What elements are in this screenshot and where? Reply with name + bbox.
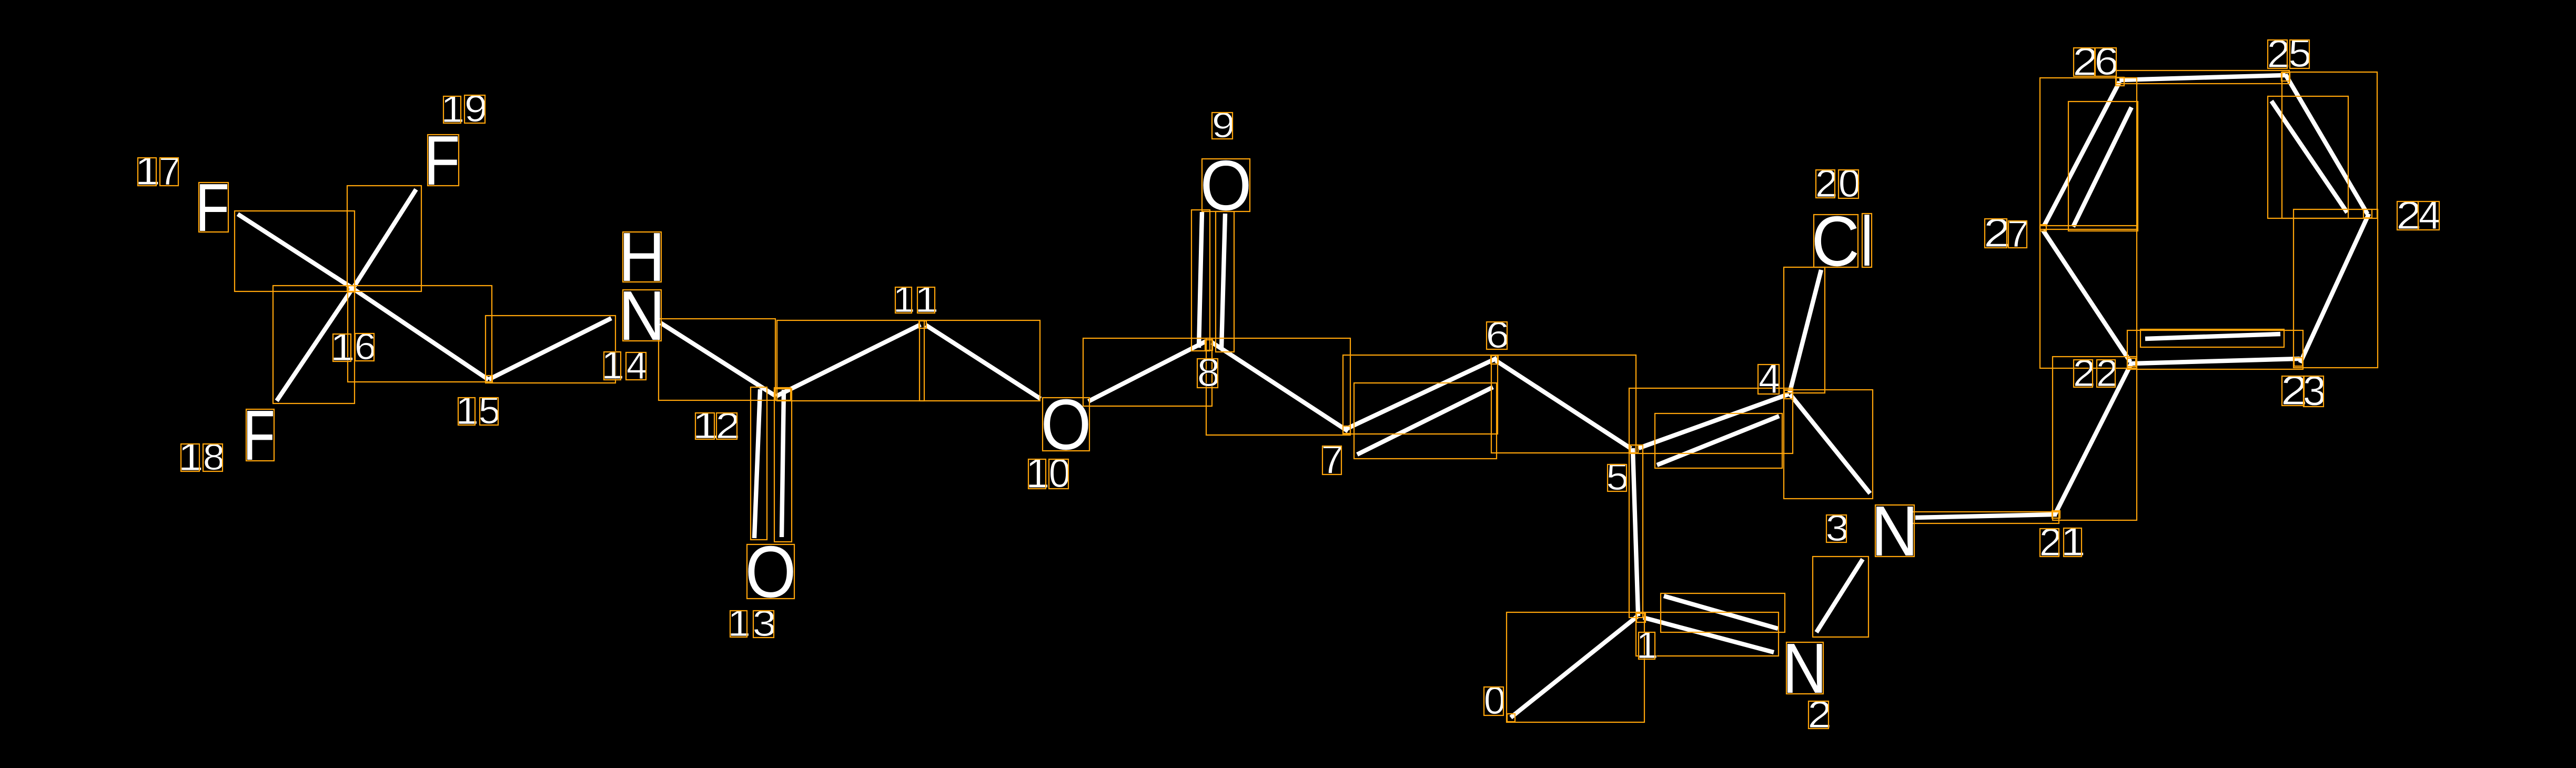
bond 4-Cl20 box [1784, 267, 1825, 393]
bond 27=26 main line [2044, 82, 2119, 226]
label 10 digit 0 [1049, 451, 1071, 496]
bond 1=2 inner box [1661, 593, 1785, 632]
bond 8-7 line [1212, 342, 1348, 431]
label 22 digit 2a [2073, 351, 2096, 394]
atom N3 [1871, 491, 1918, 571]
label 17 digit 7 [159, 149, 181, 193]
bond 23=22 main line [2131, 359, 2300, 363]
bond 11-10 box [920, 320, 1040, 401]
label 24 digit 4 [2418, 193, 2441, 238]
bond 3-21 line [1915, 514, 2057, 518]
bond 11-10 line [926, 325, 1040, 399]
bond 16-15 box [348, 286, 492, 382]
bond 5-1 line [1633, 448, 1638, 616]
bond 12=13 line b [782, 390, 784, 537]
bond 16-17 line [238, 214, 353, 289]
label 22 digit 2b [2096, 351, 2118, 394]
atom N14 [619, 277, 665, 355]
label 16 digit 6 [355, 326, 377, 368]
label 18 digit 1 [178, 435, 204, 479]
bond 23=22 main box [2127, 330, 2303, 369]
bond 7=6 main box [1343, 355, 1498, 434]
atom O10 [1041, 384, 1092, 464]
atom F19 [424, 122, 460, 200]
bond 15-14 box [486, 316, 615, 383]
label 1 [1636, 623, 1659, 666]
bond 4-Cl20 line [1790, 270, 1821, 392]
bond 22-27 box [2040, 226, 2137, 368]
bond 8=9 box b [1216, 211, 1234, 352]
label 11 digit 1a [893, 279, 915, 320]
label 27 digit 2 [1984, 210, 2011, 256]
label 12 digit 2 [715, 406, 740, 446]
atom C8 vertex box [1205, 340, 1213, 350]
atom C11 vertex box [919, 321, 926, 328]
label 26 digit 6 [2094, 39, 2119, 83]
bond 12-11 line [776, 325, 921, 396]
bond 16-18 line [277, 288, 353, 401]
atom C1 vertex box [1636, 613, 1645, 622]
bond 1-0 box [1507, 612, 1644, 722]
label 10 digit 1 [1026, 450, 1050, 497]
bond 25=24 main line [2286, 74, 2368, 214]
label 18 digit 8 [203, 437, 225, 478]
bond 27=26 inner line [2073, 107, 2131, 227]
bond 16-15 line [353, 288, 489, 379]
label 2 [1807, 694, 1832, 736]
bond 5=4 inner box [1655, 413, 1782, 468]
label 14 digit 4 [626, 343, 648, 387]
bond 27=26 inner box [2068, 102, 2138, 231]
bond 7=6 inner box [1354, 383, 1497, 459]
svg-text:0: 0 [1049, 451, 1071, 496]
bond 3-21 box [1912, 512, 2059, 523]
bond 8=9 line b [1221, 214, 1225, 349]
atom C0 vertex box [1507, 714, 1515, 722]
atom C7 vertex box [1343, 426, 1350, 433]
bond 3-2 box [1813, 557, 1868, 637]
label 15 digit 5 [479, 389, 501, 431]
svg-text:F: F [195, 170, 229, 246]
atom C27 vertex box [2040, 225, 2046, 231]
bond 8-7 box [1206, 338, 1350, 435]
bond 8=9 box a [1191, 210, 1210, 351]
bond 12-11 box [777, 320, 924, 401]
svg-text:F: F [243, 396, 275, 476]
bond 16-18 box [273, 286, 355, 403]
bond 6-5 line [1496, 360, 1631, 448]
bond 16-19 line [352, 189, 416, 290]
atom N14 H [619, 219, 665, 296]
bond 26-25 box [2116, 70, 2289, 84]
atom C4 vertex box [1784, 390, 1793, 399]
label 25 digit 2 [2267, 31, 2291, 76]
label 13 digit 1 [728, 602, 751, 644]
bond 22-27 line [2043, 230, 2130, 362]
svg-text:4: 4 [1759, 355, 1781, 402]
bond 8=9 line a [1199, 212, 1202, 348]
label 23 digit 2 [2281, 367, 2308, 413]
bond 16-17 box [235, 211, 355, 291]
label 21 digit 1 [2061, 519, 2086, 565]
atom C16 vertex box [348, 286, 355, 292]
atom C23 vertex box [2294, 358, 2302, 366]
bond 24-23 line [2300, 214, 2369, 362]
atom Cl20 C [1811, 201, 1860, 280]
bond 7=6 inner line [1357, 387, 1493, 454]
bond 14-12 box [659, 319, 775, 400]
bond 12=13 box b [774, 389, 792, 542]
atom C24 vertex box [2363, 209, 2372, 218]
svg-text:N: N [1871, 491, 1918, 571]
atom C26 vertex box [2116, 77, 2124, 86]
atom O13 [745, 531, 796, 613]
atom C21 vertex box [2052, 511, 2060, 518]
atom O9 [1200, 146, 1251, 225]
bond 5=4 main box [1629, 388, 1793, 453]
label 16 digit 1 [330, 325, 355, 369]
bond 1=2 main line [1643, 618, 1774, 652]
bond 25=24 inner box [2268, 96, 2348, 218]
label 21 digit 2 [2039, 521, 2062, 564]
atom C22 vertex box [2127, 358, 2136, 367]
svg-text:O: O [745, 531, 796, 613]
svg-text:7: 7 [159, 149, 181, 193]
svg-text:4: 4 [2419, 193, 2441, 238]
bond 21-22 box [2053, 357, 2137, 520]
bond 5-1 box [1629, 445, 1643, 618]
label 9 [1212, 105, 1235, 145]
bond 12=13 line a [754, 389, 760, 538]
label 3 [1826, 507, 1849, 549]
bond 1=2 inner line [1664, 596, 1778, 629]
label 13 digit 3 [752, 603, 776, 644]
bond 14-12 line [661, 323, 775, 396]
bond 21-22 line [2055, 361, 2133, 514]
label 27 digit 7 [2007, 212, 2029, 255]
bond 15-14 line [489, 318, 611, 379]
svg-text:7: 7 [2007, 212, 2029, 255]
atom C15 vertex box [486, 376, 492, 382]
bond 24-23 box [2294, 209, 2378, 368]
label 8 [1197, 351, 1220, 395]
label 19 digit 1 [441, 88, 465, 130]
bond 23=22 inner box [2140, 329, 2284, 347]
atom F17 [195, 170, 229, 246]
bond 4-3 line [1790, 395, 1870, 493]
bond 16-19 box [347, 186, 421, 291]
bond 27=26 main box [2040, 78, 2137, 229]
label 14 digit 1 [601, 343, 624, 388]
label 15 digit 1 [456, 389, 479, 432]
bond 10-8 box [1083, 338, 1212, 406]
label 4 [1758, 355, 1781, 402]
bond 5=4 inner line [1657, 416, 1779, 465]
atom C25 vertex box [2281, 73, 2290, 81]
label 20 digit 0 [1838, 161, 1861, 205]
bond 26-25 line [2119, 75, 2286, 80]
svg-text:O: O [1200, 146, 1251, 225]
bond 1-0 line [1511, 616, 1638, 718]
atom C5 vertex box [1630, 445, 1638, 453]
bond 25=24 inner line [2271, 101, 2347, 213]
label 6 [1486, 315, 1510, 356]
label 11 digit 1b [915, 279, 939, 320]
bond 5=4 main line [1639, 394, 1789, 448]
label 12 digit 1 [692, 405, 719, 446]
label 19 digit 9 [464, 87, 488, 130]
label 5 [1606, 456, 1629, 498]
bond 25=24 main box [2282, 72, 2377, 218]
label 17 digit 1 [135, 149, 160, 194]
svg-text:4: 4 [627, 343, 648, 387]
svg-text:7: 7 [1321, 437, 1343, 482]
svg-text:F: F [424, 122, 460, 200]
atom C12 vertex box [774, 388, 791, 400]
svg-text:C: C [1811, 201, 1860, 280]
bond 3-2 line [1816, 559, 1863, 632]
label 24 digit 2 [2396, 193, 2422, 237]
atom C6 vertex box [1491, 356, 1498, 364]
atom Cl20 l [1861, 202, 1873, 281]
bond 6-5 box [1491, 355, 1636, 453]
label 25 digit 5 [2288, 31, 2312, 75]
bond 23=22 inner line [2145, 334, 2280, 339]
atom N2 [1782, 629, 1827, 708]
label 7 [1321, 437, 1343, 482]
bond 12=13 box a [751, 387, 767, 540]
label 26 digit 2 [2073, 39, 2098, 84]
label 23 digit 3 [2303, 367, 2326, 414]
label 0 [1484, 679, 1506, 722]
bond 10-8 line [1088, 341, 1206, 401]
bond 7=6 main line [1346, 358, 1497, 429]
label 20 digit 2 [1815, 162, 1838, 206]
bond 4-3 box [1784, 390, 1873, 499]
atom F18 [243, 396, 275, 476]
bond 1=2 main box [1636, 612, 1779, 656]
